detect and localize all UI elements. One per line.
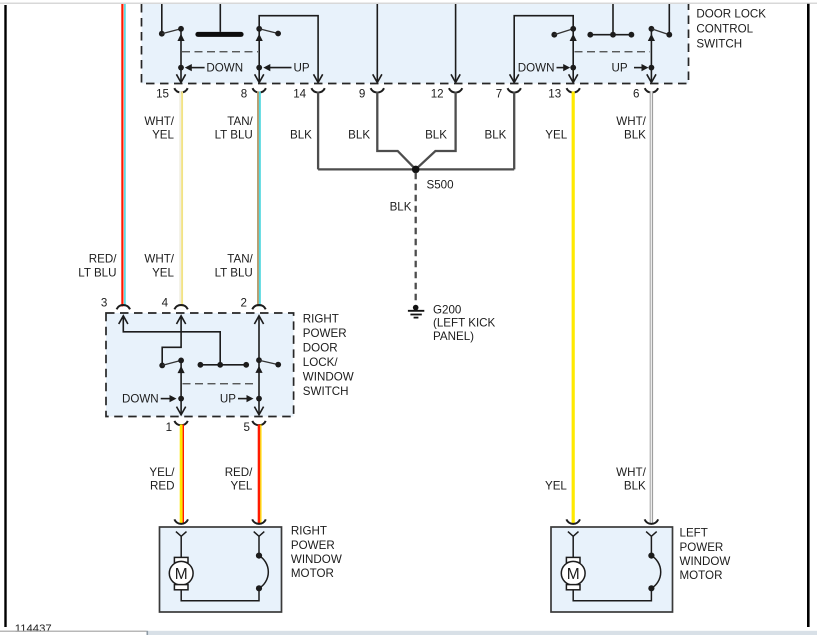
wire WHT/BLK pin 6 to left motor (649, 92, 651, 524)
left power window motor connector right (646, 532, 657, 544)
switch arm lock-down (554, 29, 573, 35)
svg-text:4: 4 (162, 296, 169, 309)
svg-text:15: 15 (156, 87, 169, 100)
svg-text:WHT/: WHT/ (616, 466, 646, 479)
pin 13 connector (567, 88, 580, 92)
svg-text:POWER: POWER (680, 541, 724, 554)
left power window motor connector left (568, 532, 579, 544)
frame left black bar (4, 5, 6, 627)
svg-text:14: 14 (293, 87, 306, 100)
svg-text:YEL/: YEL/ (149, 466, 175, 479)
door lock control switch U1 box fill (142, 4, 689, 84)
contact dot lock-down throw (551, 32, 557, 38)
contact dot window-down throw (159, 31, 165, 37)
pin 7 connector (508, 88, 521, 92)
pin 3 connector (117, 305, 130, 309)
contact dot lock-up (649, 26, 655, 32)
frame right black bar (807, 4, 810, 627)
mechanical linkage (183, 383, 258, 385)
svg-text:DOOR: DOOR (303, 342, 338, 355)
door lock control switch dashed border (142, 4, 689, 84)
svg-text:DOOR LOCK: DOOR LOCK (696, 8, 766, 21)
mechanical linkage lock (575, 51, 651, 53)
svg-text:LT BLU: LT BLU (215, 266, 253, 279)
switch arm window-up (259, 29, 278, 34)
window-up wiper pin 8 (258, 29, 260, 83)
svg-text:9: 9 (359, 87, 365, 100)
svg-text:BLK: BLK (348, 128, 370, 141)
svg-text:12: 12 (431, 87, 444, 100)
svg-text:DOWN: DOWN (122, 393, 159, 406)
right power window motor box (160, 527, 282, 612)
wire BLK pin 7 to S500 (513, 92, 515, 170)
window-down wiper pin 1 (180, 360, 182, 414)
contact dot window-down throw (159, 363, 165, 369)
right power door lock/window switch S1 box fill (106, 313, 294, 417)
lock-down wiper pin 13 (572, 29, 574, 83)
switch box dashed border (106, 313, 294, 417)
svg-text:RED/: RED/ (89, 252, 117, 265)
pin 15 connector (174, 88, 187, 92)
svg-text:MOTOR: MOTOR (680, 569, 723, 582)
pin 12 connector (449, 88, 462, 92)
pin 8 connector (253, 88, 266, 92)
wire BLK pin 14 to S500 (317, 92, 319, 170)
common contact bar (195, 32, 243, 37)
mechanical linkage window (182, 51, 258, 53)
svg-text:SWITCH: SWITCH (696, 38, 742, 51)
svg-text:5: 5 (244, 421, 250, 434)
svg-text:G200: G200 (433, 303, 461, 316)
ground G200 (413, 305, 419, 311)
svg-text:RED: RED (150, 479, 174, 492)
svg-text:BLK: BLK (290, 128, 312, 141)
wire BLK pin 9 to S500 (377, 92, 415, 170)
wire BLK dashed to ground (415, 173, 417, 303)
svg-text:BLK: BLK (390, 201, 412, 214)
wire feed to common bar (219, 4, 221, 32)
svg-text:YEL: YEL (230, 479, 252, 492)
svg-text:LT BLU: LT BLU (215, 128, 253, 141)
svg-text:YEL: YEL (152, 266, 174, 279)
wire WHT/YEL pin 15 to pin 4 (179, 92, 181, 307)
svg-text:M: M (567, 566, 580, 583)
svg-text:LT BLU: LT BLU (78, 266, 116, 279)
svg-text:TAN/: TAN/ (227, 115, 253, 128)
left power window motor wire to motor (572, 544, 574, 558)
svg-text:BLK: BLK (484, 128, 506, 141)
svg-text:RIGHT: RIGHT (291, 525, 327, 538)
pin 1 connector (174, 421, 187, 425)
svg-text:WINDOW: WINDOW (680, 555, 731, 568)
svg-text:WHT/: WHT/ (144, 252, 174, 265)
svg-text:CONTROL: CONTROL (696, 23, 753, 36)
left power window motor box (551, 527, 673, 612)
right power window motor wire to motor (180, 544, 182, 558)
pin 3 internal arrow and wire to common (119, 316, 128, 324)
svg-text:DOWN: DOWN (518, 62, 555, 75)
svg-text:UP: UP (220, 393, 236, 406)
bottom scrollbar strip (0, 632, 147, 635)
svg-text:UP: UP (612, 62, 628, 75)
svg-text:13: 13 (548, 87, 561, 100)
svg-text:S500: S500 (427, 179, 454, 192)
wire BLK bus to S500 (318, 168, 514, 170)
pin 14 connector (311, 88, 324, 92)
svg-text:6: 6 (633, 87, 639, 100)
wire pin 12 pass-through (455, 4, 457, 83)
window-up wiper pin 5 (258, 360, 260, 415)
pin 4 internal arrow and wire to window-down throw (177, 316, 186, 324)
svg-text:WINDOW: WINDOW (303, 371, 354, 384)
svg-text:2: 2 (241, 296, 247, 309)
svg-text:RIGHT: RIGHT (303, 313, 339, 326)
lock common bar dots (590, 34, 631, 36)
svg-text:(LEFT KICK: (LEFT KICK (433, 317, 496, 330)
pin 2 internal arrow and wire to window-up wiper (254, 316, 263, 324)
svg-text:BLK: BLK (624, 479, 646, 492)
wire TAN/LT BLU pin 8 to pin 2 (257, 92, 259, 307)
left power window motor internal switch contacts (650, 544, 652, 556)
pin 5 connector (252, 421, 265, 425)
wire feed to lock-up throw (668, 4, 670, 35)
contact dot window-up (256, 357, 262, 363)
switch arm window-down (162, 29, 181, 34)
wire feed to lock common (612, 4, 614, 35)
wire YEL/RED pin 1 to right motor (180, 425, 183, 524)
svg-text:7: 7 (496, 87, 502, 100)
wire end connectors above right motor (174, 519, 188, 523)
svg-text:WHT/: WHT/ (616, 115, 646, 128)
svg-text:PANEL): PANEL) (433, 330, 474, 343)
pin 9 connector (371, 88, 384, 92)
svg-text:MOTOR: MOTOR (291, 567, 334, 580)
svg-text:M: M (175, 566, 188, 583)
wire pin 9 pass-through (376, 4, 378, 83)
svg-text:LOCK/: LOCK/ (303, 356, 339, 369)
right power window motor bottom wire (181, 588, 259, 601)
motor M right power window motor (174, 557, 188, 562)
motor M left power window motor (566, 557, 580, 562)
pin 2 connector (252, 305, 265, 309)
pin 6 connector (645, 88, 658, 92)
svg-text:RED/: RED/ (225, 466, 253, 479)
svg-text:3: 3 (101, 296, 107, 309)
splice S500 (412, 166, 420, 174)
wire window-up contact to pin 14 (259, 16, 318, 83)
pin 4 connector (174, 305, 187, 309)
svg-text:WHT/: WHT/ (144, 115, 174, 128)
svg-text:LEFT: LEFT (680, 527, 708, 540)
svg-text:YEL: YEL (152, 128, 174, 141)
wire lock-down contact to pin 7 (514, 16, 573, 83)
switch arm lock-up (651, 29, 669, 35)
switch arm window-up (259, 360, 278, 364)
svg-text:BLK: BLK (624, 128, 646, 141)
left power window motor bottom wire (573, 588, 651, 601)
wire YEL pin 13 to left motor (572, 92, 575, 524)
wire feed to window-down contact (161, 4, 163, 32)
svg-text:YEL: YEL (545, 128, 567, 141)
contact dot window-up (256, 26, 262, 32)
wire RED/LT BLU to pin 3 (121, 4, 123, 307)
svg-text:POWER: POWER (291, 539, 335, 552)
svg-text:POWER: POWER (303, 327, 347, 340)
common bar with dots (200, 364, 246, 366)
svg-text:WINDOW: WINDOW (291, 553, 342, 566)
wire end connectors above left motor (566, 519, 580, 523)
wire BLK pin 12 to S500 (416, 92, 456, 170)
svg-text:1: 1 (166, 421, 172, 434)
svg-text:BLK: BLK (425, 128, 447, 141)
frame top border line (0, 2, 817, 4)
lock-up wiper pin 6 (650, 29, 652, 83)
svg-text:SWITCH: SWITCH (303, 385, 349, 398)
svg-text:8: 8 (241, 87, 247, 100)
right power window motor connector left (176, 532, 187, 544)
window-down wiper pin 15 (180, 29, 182, 83)
right power window motor connector right (254, 532, 265, 544)
switch arm window-down (162, 360, 181, 365)
svg-text:TAN/: TAN/ (227, 252, 253, 265)
svg-text:DOWN: DOWN (206, 62, 243, 75)
svg-text:UP: UP (294, 62, 310, 75)
wire RED/YEL pin 5 to right motor (258, 425, 261, 524)
right power window motor internal switch contacts (258, 544, 260, 556)
svg-text:YEL: YEL (545, 479, 567, 492)
